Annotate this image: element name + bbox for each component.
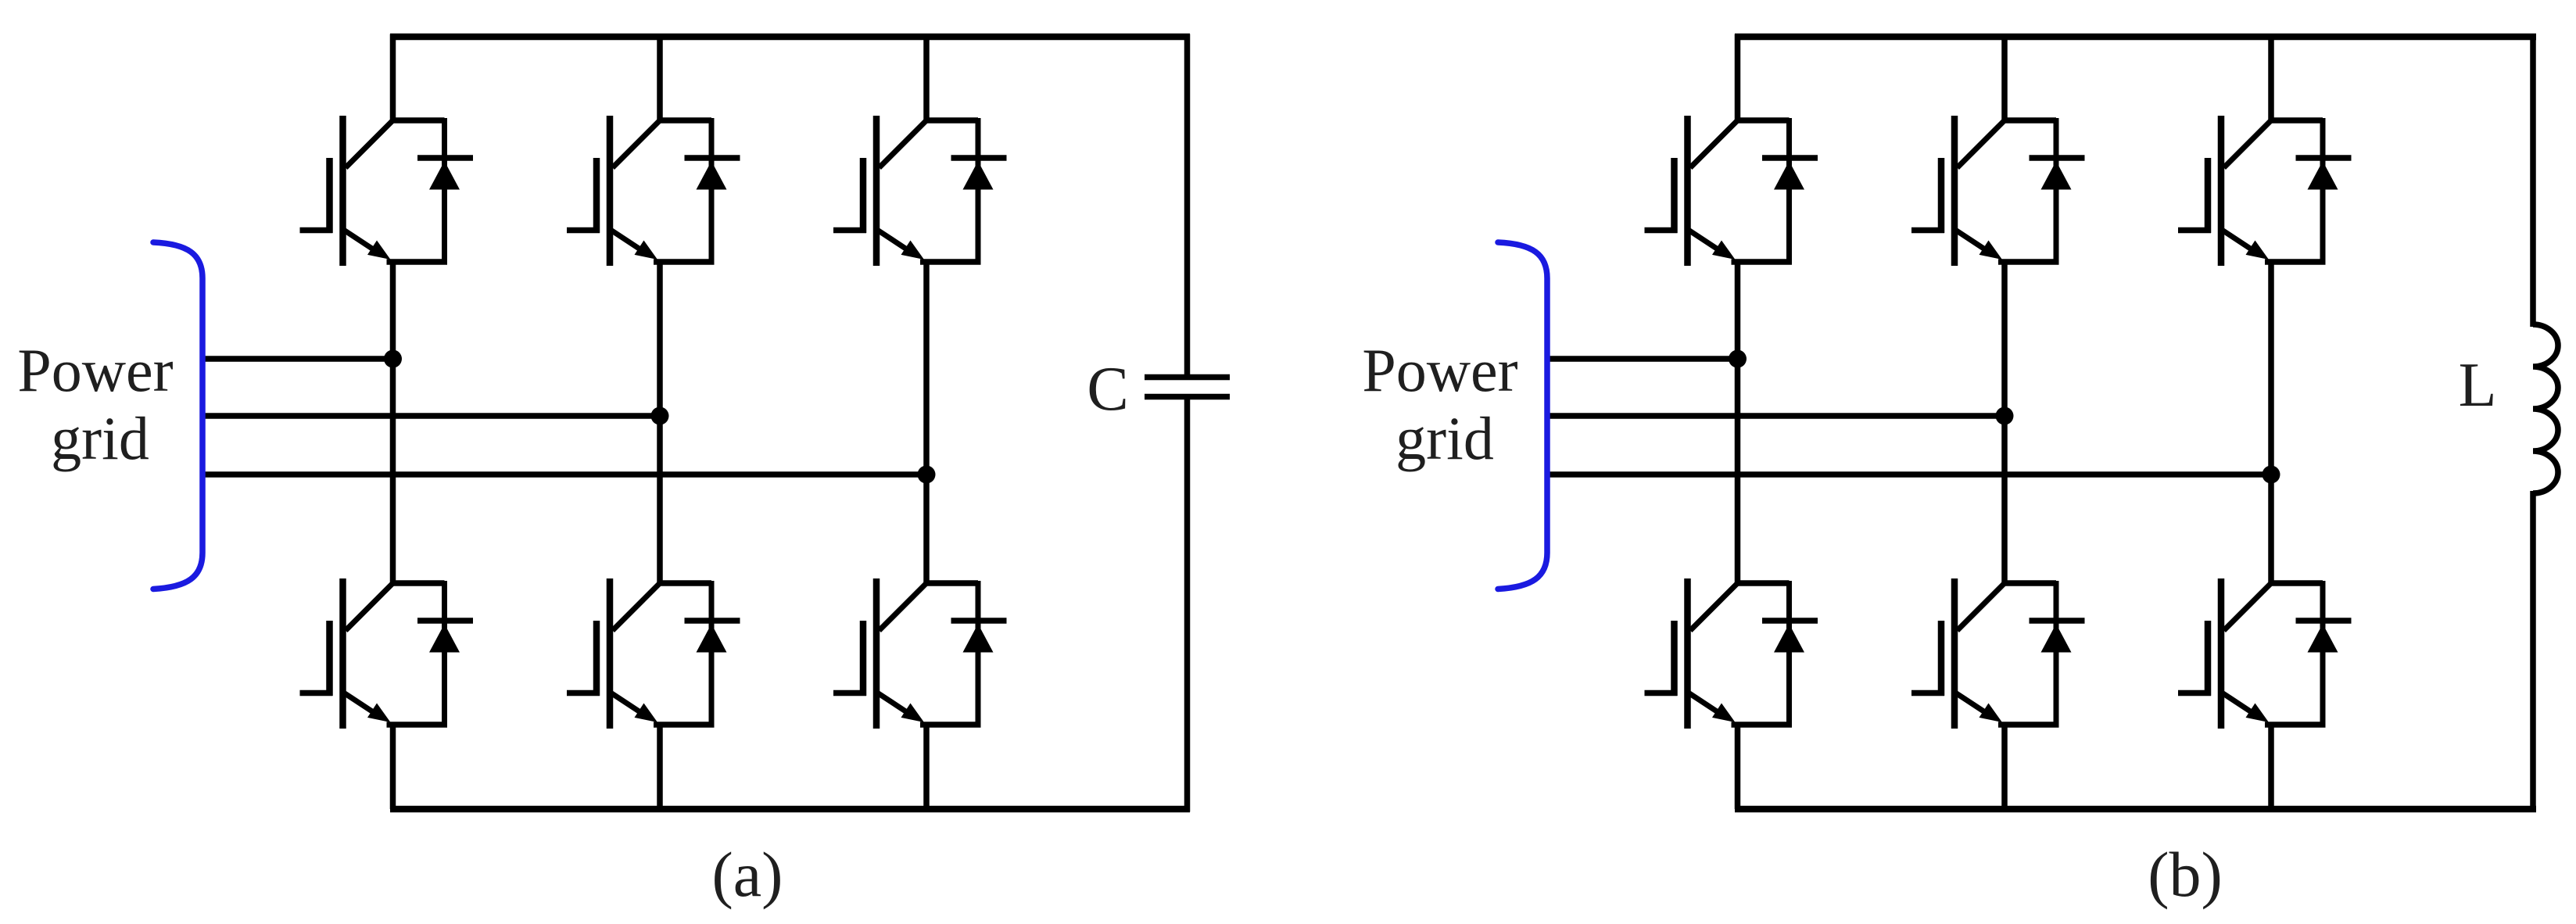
power grid brace (a)	[153, 242, 202, 589]
phase A wire (a)	[202, 356, 393, 362]
IGBT S4 bottom leg A (b)	[1645, 578, 1818, 729]
right DC rail upper segment (b)	[2530, 34, 2536, 328]
right DC rail lower segment (b)	[2530, 491, 2536, 812]
leg B upper wire (a)	[657, 34, 663, 121]
right DC rail upper segment (a)	[1184, 34, 1191, 378]
leg A upper wire (b)	[1735, 34, 1741, 121]
leg C middle wire (a)	[923, 262, 930, 583]
capacitor C bottom plate	[1145, 394, 1230, 400]
leg C lower wire (b)	[2268, 725, 2274, 809]
leg C middle wire (b)	[2268, 262, 2274, 583]
leg A middle wire (a)	[390, 262, 396, 583]
leg C upper wire (a)	[923, 34, 930, 121]
IGBT S3 top leg B (a)	[567, 116, 740, 266]
top DC bus (b)	[1735, 34, 2536, 41]
junction node phase B (a)	[651, 407, 669, 425]
right DC rail lower segment (a)	[1184, 397, 1191, 812]
leg A upper wire (a)	[390, 34, 396, 121]
top DC bus (a)	[390, 34, 1190, 41]
leg B middle wire (b)	[2001, 262, 2008, 583]
IGBT S1 top leg A (a)	[300, 116, 474, 266]
svg-text:(b): (b)	[2148, 839, 2223, 910]
IGBT S1 top leg A (b)	[1645, 116, 1818, 266]
IGBT S2 bottom leg C (a)	[833, 578, 1007, 729]
IGBT S3 top leg B (b)	[1911, 116, 2085, 266]
junction node phase A (b)	[1729, 350, 1747, 368]
phase B wire (b)	[1547, 413, 2005, 419]
leg B middle wire (a)	[657, 262, 663, 583]
phase B wire (a)	[202, 413, 660, 419]
phase C wire (a)	[202, 471, 926, 478]
svg-text:Power: Power	[1362, 336, 1517, 404]
inductor L coil	[2533, 324, 2558, 493]
svg-text:grid: grid	[51, 404, 149, 472]
svg-text:L: L	[2459, 351, 2497, 420]
leg B upper wire (b)	[2001, 34, 2008, 121]
svg-text:grid: grid	[1395, 404, 1494, 472]
bottom DC bus (b)	[1735, 806, 2536, 813]
capacitor C top plate	[1145, 374, 1230, 381]
IGBT S5 top leg C (a)	[833, 116, 1007, 266]
leg A middle wire (b)	[1735, 262, 1741, 583]
leg A lower wire (a)	[390, 725, 396, 809]
svg-text:C: C	[1087, 355, 1128, 424]
bottom DC bus (a)	[390, 806, 1190, 813]
IGBT S4 bottom leg A (a)	[300, 578, 474, 729]
IGBT S6 bottom leg B (a)	[567, 578, 740, 729]
leg A lower wire (b)	[1735, 725, 1741, 809]
leg B lower wire (b)	[2001, 725, 2008, 809]
phase A wire (b)	[1547, 356, 1738, 362]
junction node phase B (b)	[1996, 407, 2014, 425]
svg-text:Power: Power	[17, 336, 173, 404]
power grid brace (b)	[1498, 242, 1547, 589]
phase C wire (b)	[1547, 471, 2271, 478]
junction node phase C (b)	[2263, 466, 2280, 484]
leg C upper wire (b)	[2268, 34, 2274, 121]
IGBT S6 bottom leg B (b)	[1911, 578, 2085, 729]
junction node phase C (a)	[918, 466, 936, 484]
IGBT S2 bottom leg C (b)	[2178, 578, 2352, 729]
junction node phase A (a)	[384, 350, 402, 368]
leg C lower wire (a)	[923, 725, 930, 809]
svg-text:(a): (a)	[711, 839, 783, 910]
IGBT S5 top leg C (b)	[2178, 116, 2352, 266]
leg B lower wire (a)	[657, 725, 663, 809]
